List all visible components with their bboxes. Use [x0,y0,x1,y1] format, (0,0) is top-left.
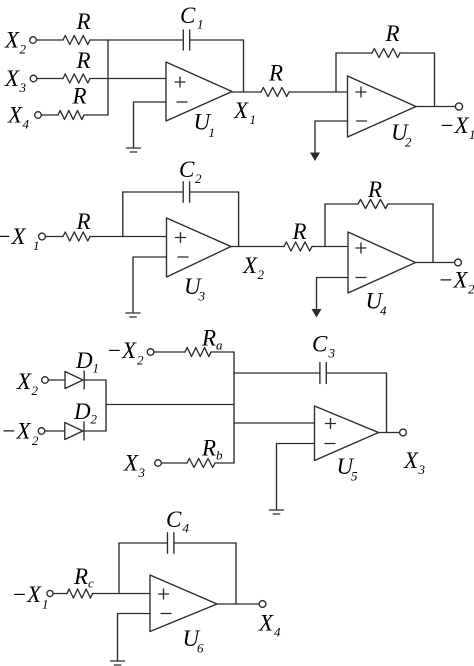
svg-text:X: X [403,448,419,473]
svg-text:4: 4 [380,303,387,318]
resistor Rc [67,564,94,598]
svg-text:1: 1 [197,17,204,32]
svg-text:X: X [242,253,258,278]
wire [45,430,65,432]
svg-text:6: 6 [197,641,204,656]
ground arrow (U2 minus input) [310,153,320,162]
svg-text:C: C [166,507,182,532]
svg-text:3: 3 [19,80,27,95]
ground (U5 minus input) [270,510,284,514]
svg-text:2: 2 [468,282,474,297]
wire [133,257,167,312]
svg-text:1: 1 [209,125,216,140]
wire [93,593,151,595]
svg-text:2: 2 [195,171,202,186]
svg-text:3: 3 [198,289,206,304]
svg-text:1: 1 [250,112,257,127]
svg-text:2: 2 [137,353,144,368]
wire [90,78,166,80]
resistor R (-X1 input) [63,209,91,241]
svg-text:R: R [292,219,307,244]
resistor R (U4 feedback) [325,177,433,209]
wire [235,543,237,604]
wire [231,246,284,248]
wire [386,373,388,433]
svg-text:X: X [4,28,20,53]
resistor R (X1 to U2) [261,61,289,97]
svg-text:R: R [76,209,91,234]
ground arrow (U4 minus input) [312,309,322,318]
svg-text:4: 4 [23,117,30,132]
svg-text:2: 2 [258,267,265,282]
wire [277,444,315,510]
svg-text:4: 4 [183,521,190,536]
wire summing bus U5 [233,352,235,463]
resistor R (U2 feedback) [336,21,435,58]
wire [36,39,63,41]
svg-text:R: R [367,177,382,202]
svg-text:1: 1 [33,238,40,253]
node X4 input terminal [7,103,41,132]
svg-text:2: 2 [32,433,39,448]
svg-text:a: a [216,338,223,353]
wire [84,430,106,432]
resistor Ra [185,326,223,357]
svg-text:X: X [16,369,32,394]
wire [161,462,187,464]
wire [434,53,436,107]
op-amp U4 [348,232,416,318]
node X2 [242,253,265,282]
wire [324,204,326,247]
wire [326,372,386,374]
svg-text:2: 2 [405,135,412,150]
node X4 output terminal [258,601,281,640]
svg-text:2: 2 [32,383,39,398]
svg-text:C: C [180,3,196,28]
capacitor C1 [180,3,204,50]
wire [45,236,63,238]
wire [232,91,261,93]
wire [84,114,108,116]
wire [118,614,151,661]
wire [379,432,400,434]
node X3 input terminal [4,66,37,95]
wire [238,192,240,247]
svg-text:1: 1 [42,597,49,612]
wire [90,39,183,41]
diode D1 [65,348,99,389]
wire [122,192,124,237]
wire [190,39,244,41]
wire [416,262,455,264]
ground (U6 minus input) [111,661,125,665]
svg-text:5: 5 [351,469,358,484]
wire [84,379,106,381]
wire [134,102,167,147]
svg-text:R: R [73,564,88,589]
svg-text:R: R [76,48,91,73]
wire [432,204,434,263]
svg-text:D: D [75,348,93,373]
svg-text:X: X [233,98,249,123]
wire [416,106,456,108]
resistor Rb [187,436,223,468]
svg-text:R: R [72,84,87,109]
wire [41,114,58,116]
wire [315,121,348,153]
node -X1 output terminal [439,103,474,142]
node -X1 input terminal (Rc) [12,582,54,612]
svg-text:−X: −X [12,582,43,607]
wire [217,603,259,605]
wire [335,53,337,92]
op-amp U6 [150,575,217,656]
svg-text:R: R [201,436,216,461]
node X1 [233,98,256,127]
svg-text:−X: −X [438,268,469,293]
wire [234,422,315,424]
svg-text:X: X [258,611,274,636]
wire [289,91,348,93]
node X3 output terminal [400,429,426,477]
capacitor C4 [119,507,236,553]
ground (U1 minus input) [127,148,141,152]
svg-text:2: 2 [91,412,98,427]
svg-text:R: R [268,61,283,86]
svg-text:X: X [4,66,20,91]
svg-text:C: C [312,332,328,357]
wire [105,380,107,431]
node X2 input terminal (D1) [16,369,48,398]
svg-text:3: 3 [418,462,426,477]
wire [317,278,349,310]
svg-text:3: 3 [138,465,146,480]
wire [106,404,234,406]
resistor R (X2 to U4) [284,219,312,251]
node -X2 output terminal [438,259,474,296]
wire [53,593,67,595]
svg-text:1: 1 [93,361,100,376]
resistor R (X4 input) [58,84,87,120]
svg-text:X: X [123,451,139,476]
svg-text:C: C [179,157,195,182]
node -X2 input terminal (Ra) [107,338,154,368]
svg-text:D: D [73,399,91,424]
svg-text:1: 1 [469,127,474,142]
wire [118,543,120,594]
svg-text:−X: −X [1,419,32,444]
ground (U3 minus input) [126,313,140,317]
capacitor C2 [123,157,239,202]
svg-text:4: 4 [274,625,281,640]
svg-text:2: 2 [20,42,27,57]
op-amp U2 [348,76,417,150]
op-amp U1 [166,62,232,140]
wire [211,351,234,353]
wire [90,236,167,238]
wire [215,462,234,464]
svg-text:−X: −X [107,338,138,363]
svg-text:R: R [201,326,216,351]
node -X2 input terminal (D2) [1,419,45,449]
resistor R (X3 input) [63,48,91,83]
wire [243,40,245,92]
resistor R (X2 input) [63,9,91,45]
op-amp U5 [315,406,379,484]
diode D2 [65,399,98,440]
svg-text:c: c [88,576,94,591]
node -X1 input terminal [0,224,45,253]
svg-text:X: X [7,103,23,128]
wire [234,372,320,374]
capacitor C3 [312,332,336,384]
wire [37,78,63,80]
node X3 input terminal (Rb) [123,451,161,481]
svg-text:−X: −X [439,113,470,138]
svg-text:−X: −X [0,224,27,249]
op-amp U3 [167,218,232,304]
wire [48,379,65,381]
wire [312,246,348,248]
svg-text:R: R [385,21,400,46]
svg-text:b: b [216,448,223,463]
node X2 input terminal [4,28,36,57]
wire [154,351,185,353]
wire summing bus U1 [107,40,109,115]
svg-text:R: R [76,9,91,34]
svg-text:3: 3 [328,346,336,361]
